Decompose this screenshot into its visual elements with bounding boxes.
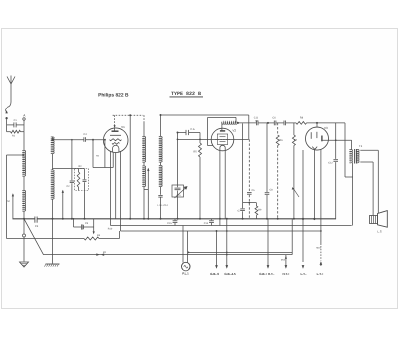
svg-text:C14: C14: [204, 222, 209, 225]
svg-text:C12: C12: [328, 161, 333, 164]
svg-text:R10: R10: [108, 227, 113, 230]
svg-text:P.L.1: P.L.1: [182, 272, 189, 276]
svg-text:V2: V2: [232, 128, 236, 132]
svg-text:L.S: L.S: [377, 229, 381, 233]
svg-text:C3: C3: [35, 225, 39, 228]
svg-text:L.T.+: L.T.+: [317, 272, 324, 276]
svg-text:M: M: [7, 200, 9, 203]
svg-text:G.B.-4.5: G.B.-4.5: [224, 272, 236, 276]
svg-text:V1: V1: [121, 125, 125, 129]
svg-text:H.T.+: H.T.+: [282, 272, 289, 276]
svg-text:TYPE 822 B: TYPE 822 B: [171, 91, 201, 97]
svg-text:T1: T1: [359, 144, 363, 148]
svg-text:L.S.L.C14: L.S.L.C14: [158, 204, 169, 207]
svg-text:Philips 822 B: Philips 822 B: [98, 92, 129, 98]
svg-text:V3: V3: [324, 126, 328, 130]
svg-text:C11: C11: [254, 117, 259, 120]
svg-text:C15: C15: [167, 222, 172, 225]
svg-text:G.B.-9: G.B.-9: [210, 272, 219, 276]
svg-text:C.A: C.A: [190, 128, 195, 131]
svg-text:300: 300: [255, 119, 258, 122]
svg-text:L.T.-: L.T.-: [301, 272, 307, 276]
svg-text:G.B.+ H.T.-: G.B.+ H.T.-: [259, 272, 274, 276]
